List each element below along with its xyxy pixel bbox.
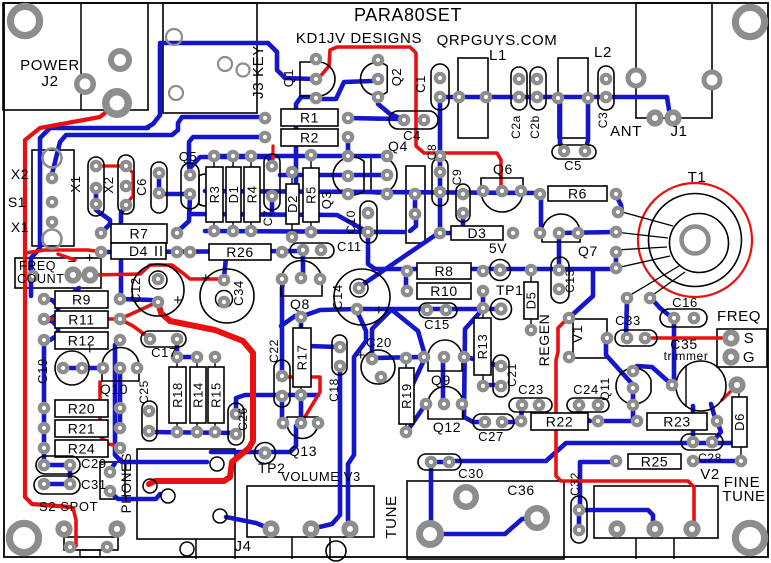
label C14: [330, 284, 345, 310]
pads R7: [97, 229, 181, 237]
wire Q10 bias: [100, 382, 119, 446]
label Q1: [281, 69, 296, 88]
resistor R15: [208, 357, 224, 432]
svg-text:REGEN: REGEN: [536, 314, 552, 367]
T1 fan wires: [615, 212, 685, 297]
J1 pad L: [628, 70, 644, 86]
wire T1 pad to C33: [626, 299, 627, 336]
TUNE rotor pad: [456, 487, 476, 507]
pads R25: [612, 457, 697, 465]
label J3 KEY: [250, 45, 267, 99]
wire D3 to C14: [359, 234, 437, 288]
capacitor C2b: [530, 67, 546, 110]
pads C23: [518, 401, 543, 409]
J2 pad mid: [111, 51, 129, 69]
pads Q2: [374, 56, 382, 101]
pad counter 2: [84, 269, 96, 281]
pads C30: [427, 458, 453, 466]
svg-text:S: S: [744, 330, 755, 347]
mount hole BR: [735, 523, 764, 552]
resistor R10: [417, 283, 471, 299]
pads C29: [40, 461, 74, 469]
capacitor C7: [264, 154, 280, 210]
label J2: [41, 73, 58, 90]
pads Q10: [99, 364, 141, 372]
label C16: [672, 295, 698, 310]
wire C36 link: [436, 518, 532, 534]
capacitor C20 body: [361, 350, 395, 384]
resistor R23: [647, 413, 707, 430]
wire C15 to Q9: [392, 310, 424, 352]
pads Q9: [420, 353, 468, 361]
svg-text:J4: J4: [234, 538, 251, 555]
svg-text:C23: C23: [518, 382, 544, 397]
transistor Q9 body: [428, 340, 462, 371]
pads D3: [436, 229, 517, 237]
wire C32 link: [577, 510, 582, 530]
wire Q4 pads: [413, 195, 418, 213]
pads C5: [560, 147, 589, 155]
capacitor C23: [509, 398, 552, 412]
pads C28: [689, 438, 716, 446]
wire C17 to R18: [175, 341, 180, 356]
wire power feed thick: [25, 103, 117, 507]
svg-text:Q13: Q13: [289, 443, 317, 459]
pads C35 left: [668, 381, 676, 389]
pads bus271: [527, 266, 535, 274]
wire Q1 to Q2: [320, 80, 377, 99]
label KD1JV DESIGNS: [296, 30, 422, 47]
pads R2: [261, 133, 352, 141]
wire R7 to Q5: [177, 196, 190, 232]
svg-text:ANT: ANT: [610, 123, 642, 140]
svg-text:KD1JV DESIGNS: KD1JV DESIGNS: [296, 30, 422, 47]
label REGEN: [536, 314, 552, 367]
pads C18: [336, 343, 344, 370]
wire counter stub: [58, 254, 75, 260]
wire R2 stub: [346, 139, 351, 156]
svg-text:R24: R24: [68, 441, 95, 457]
capacitor C16: [660, 309, 707, 327]
svg-text:C29: C29: [81, 456, 107, 471]
resistor R25: [628, 454, 681, 470]
wire bus y432: [149, 432, 236, 433]
wire R2 left bus: [189, 137, 265, 172]
wire C27 to R22: [503, 420, 519, 425]
label Q8: [290, 296, 310, 312]
J4 hole c: [161, 489, 175, 503]
svg-text:S1: S1: [8, 194, 26, 210]
wire R23 to C28: [713, 421, 721, 441]
transistor Q4 body: [371, 156, 397, 194]
svg-text:C6: C6: [134, 178, 149, 196]
connector J3 outline: [163, 3, 257, 113]
capacitor C18: [332, 335, 347, 375]
jack PHONES outline: [100, 462, 125, 499]
diode D4: [111, 243, 166, 259]
wire R1 to C4: [348, 118, 404, 120]
D4 diode bars: [156, 246, 161, 256]
svg-text:PARA80SET: PARA80SET: [354, 5, 462, 25]
wire supply bus y271: [368, 234, 616, 269]
connector J4 outline: [137, 449, 235, 559]
svg-text:C28: C28: [698, 451, 722, 465]
wire R12 rail down: [115, 340, 207, 462]
svg-text:C20: C20: [366, 335, 392, 350]
svg-text:Q6: Q6: [493, 161, 513, 177]
svg-text:C17: C17: [151, 345, 177, 360]
wire RF bus y97: [440, 95, 606, 100]
label C2a: [509, 115, 523, 139]
wire REGEN line: [556, 317, 694, 527]
wire C5 riser b: [586, 99, 588, 149]
capacitor C17: [141, 331, 186, 347]
svg-text:Q5: Q5: [179, 149, 198, 164]
wire R6 drop: [539, 195, 544, 231]
resistor R18: [169, 357, 186, 432]
wire C35 to R23: [711, 404, 715, 418]
wire C16 drop: [672, 320, 674, 385]
label C26: [236, 407, 250, 431]
wire bottom pad row: [205, 231, 404, 232]
pads C34: [220, 276, 228, 306]
svg-text:D1: D1: [226, 186, 241, 204]
pads C4: [400, 116, 428, 124]
wire C30 drop: [429, 464, 434, 533]
label ANT: [610, 123, 642, 140]
resistor R24: [55, 440, 108, 457]
svg-text:TUNE: TUNE: [383, 495, 400, 538]
connector J1 outline: [636, 3, 712, 118]
svg-text:Q7: Q7: [578, 243, 598, 259]
svg-text:R19: R19: [399, 383, 414, 409]
svg-text:C19: C19: [35, 358, 50, 384]
pads Q13: [279, 419, 322, 427]
C35 chord: [685, 365, 687, 407]
pads C14: [353, 284, 363, 313]
wire C7 drop: [270, 198, 275, 213]
J3 hole b: [169, 86, 183, 100]
pads C12: [154, 275, 162, 306]
resistor R3: [206, 156, 223, 231]
wire Q8 to R17: [303, 309, 356, 316]
pad V2 3: [686, 523, 698, 535]
pads C2b: [533, 75, 541, 101]
wire Q7 to C13: [557, 233, 562, 268]
label Q3: [319, 191, 334, 210]
capacitor C22: [274, 360, 290, 407]
pads C8 top: [436, 152, 444, 160]
label J1: [670, 123, 687, 140]
svg-text:Q10: Q10: [100, 381, 128, 397]
wire C9 to D3: [443, 215, 463, 233]
label TUNE: [722, 488, 765, 505]
switch S1 outline: [32, 150, 74, 246]
pads C31: [40, 480, 74, 488]
label Q10: [100, 381, 128, 397]
label C30: [458, 466, 484, 481]
label C35: [670, 336, 697, 352]
capacitor C29: [36, 456, 80, 474]
wire outer curve: [31, 128, 148, 296]
svg-text:+: +: [86, 249, 95, 265]
C12 inner ring: [149, 271, 167, 289]
svg-text:POWER: POWER: [20, 57, 80, 74]
resistor R12: [55, 332, 108, 349]
J3 hole c: [218, 57, 232, 71]
label C36: [507, 482, 534, 498]
svg-text:Q1: Q1: [281, 69, 296, 88]
wire C35 link: [637, 366, 670, 383]
pads C25: [145, 407, 153, 435]
pads X2: [122, 162, 130, 209]
capacitor C12 body: [132, 264, 184, 316]
wire left rail: [42, 341, 47, 408]
J2 pad big: [106, 92, 129, 115]
wire R25 right: [693, 459, 741, 464]
wire mid bus y191: [205, 191, 538, 193]
svg-text:R25: R25: [641, 454, 668, 470]
pads R11: [40, 315, 124, 323]
test point TP1: [491, 299, 512, 320]
svg-text:G: G: [743, 349, 755, 366]
svg-text:+: +: [173, 292, 182, 309]
svg-text:5V: 5V: [489, 240, 507, 256]
wire C22 to Q13 blue: [280, 398, 285, 421]
wire J4 to V3: [226, 517, 268, 528]
svg-text:R9: R9: [72, 292, 91, 308]
label C29: [81, 456, 107, 471]
pads X1: [92, 162, 100, 208]
wire C22 to R17: [281, 316, 301, 326]
pads C17: [146, 335, 181, 343]
label Q9: [431, 372, 451, 388]
pads C16: [670, 314, 698, 322]
label Q6: [493, 161, 513, 177]
pad 5V: [490, 260, 511, 281]
svg-text:VOLUME V3: VOLUME V3: [281, 469, 361, 484]
label C27: [478, 429, 504, 444]
resistor R20: [55, 400, 108, 417]
capacitor C19 body: [55, 351, 89, 385]
label C9: [450, 169, 464, 186]
J2 pad small: [77, 76, 94, 93]
wire R11 cross: [44, 317, 118, 321]
wire TP1 to C15: [359, 307, 497, 312]
capacitor C11: [290, 243, 334, 258]
inductor L2 core: [558, 58, 588, 138]
S1 hole bottom: [43, 230, 62, 249]
pads D4: [97, 248, 181, 256]
svg-text:R1: R1: [300, 110, 319, 126]
label Q5: [179, 149, 198, 164]
wire C7 stub: [271, 146, 274, 168]
wire C29-C31 link: [68, 465, 73, 483]
wire top bus ext: [214, 154, 385, 159]
svg-text:D5: D5: [524, 292, 539, 310]
svg-text:C18: C18: [327, 378, 341, 402]
pads C27: [481, 418, 506, 426]
wire top pad row: [190, 157, 272, 174]
label trimmer: [664, 349, 709, 363]
svg-text:COUNT: COUNT: [17, 272, 64, 286]
resistor R5: [303, 155, 319, 232]
transistor Q11 body: [616, 368, 651, 404]
wire Q12 left leg: [408, 405, 425, 430]
V3 hole: [326, 541, 346, 561]
svg-text:L1: L1: [489, 47, 507, 64]
wire mid bus y214: [189, 214, 366, 231]
capacitor C5: [552, 145, 596, 159]
wire X2 to C12: [121, 205, 126, 295]
wire C18 rail: [315, 368, 340, 528]
pads C8: [436, 168, 444, 196]
svg-text:C34: C34: [231, 280, 246, 306]
pads D5: [527, 326, 535, 334]
svg-text:C3: C3: [596, 112, 610, 129]
label QRPGUYS.COM: [437, 32, 558, 49]
transistor Q10 body: [102, 348, 139, 381]
svg-text:R18: R18: [170, 382, 185, 408]
capacitor C1: [431, 64, 449, 110]
resistor R17: [293, 317, 311, 395]
svg-text:C7: C7: [261, 210, 275, 227]
pad S2 a: [58, 523, 70, 535]
label C2b: [528, 115, 542, 139]
wire R13 rail: [464, 310, 483, 422]
label POWER: [20, 57, 80, 74]
wire C3 to J1: [606, 97, 672, 116]
svg-text:Q9: Q9: [431, 372, 451, 388]
capacitor C8: [432, 158, 448, 206]
pad V3 3: [344, 523, 356, 535]
label X1: [68, 175, 83, 192]
label TP2: [258, 460, 285, 476]
resistor R26: [209, 244, 271, 260]
pads C21: [497, 362, 505, 390]
label Q7: [578, 243, 598, 259]
variable capacitor TUNE outline: [407, 481, 564, 559]
svg-text:J3 KEY: J3 KEY: [250, 45, 267, 99]
pads D2: [288, 168, 296, 241]
pads Q4 rail: [383, 152, 391, 198]
svg-text:L2: L2: [594, 44, 612, 61]
wire C15 to C20: [372, 309, 392, 357]
svg-text:D2: D2: [285, 195, 300, 213]
pads R6: [536, 190, 620, 198]
label COUNT: [17, 272, 64, 286]
svg-text:C14: C14: [330, 284, 345, 310]
wire C24 drop: [579, 406, 590, 421]
wire Q7 pads: [559, 232, 616, 233]
wire key bus top: [160, 43, 313, 79]
transistor Q5 tab: [199, 174, 222, 206]
label C8: [425, 144, 439, 161]
pads C1: [436, 74, 444, 101]
wire X1 drop: [96, 190, 110, 231]
wire R24-C29 link: [42, 449, 47, 464]
pads D6 bot: [737, 457, 745, 465]
wire C22 riser: [282, 281, 283, 374]
wire phones ring: [110, 492, 160, 499]
capacitor C25: [142, 401, 157, 441]
svg-text:C27: C27: [478, 429, 504, 444]
capacitor C4: [389, 111, 438, 129]
svg-text:FREQ: FREQ: [717, 308, 761, 325]
label FINE: [724, 474, 761, 491]
label +: [86, 249, 95, 265]
svg-text:TP1: TP1: [496, 282, 523, 298]
svg-text:R10: R10: [430, 283, 457, 299]
wire C35 to C28: [691, 406, 696, 440]
pads L1: [455, 93, 490, 101]
svg-text:D6: D6: [732, 413, 747, 431]
svg-text:D3: D3: [467, 225, 486, 241]
wire TP2 line: [211, 426, 296, 452]
svg-text:R13: R13: [475, 334, 490, 360]
mount hole TL: [10, 6, 39, 35]
pads Q1: [312, 55, 320, 102]
pad C35 right: [731, 379, 743, 391]
svg-text:C26: C26: [236, 407, 250, 431]
pads Q5: [186, 171, 194, 198]
label PARA80SET: [354, 5, 462, 25]
svg-text:R20: R20: [68, 401, 95, 417]
svg-text:C5: C5: [564, 158, 582, 173]
variable capacitor V2 outline: [594, 486, 718, 559]
label L1: [489, 47, 507, 64]
pad counter 1: [67, 269, 79, 281]
capacitor C15: [419, 303, 457, 318]
pad V3 1: [265, 523, 277, 535]
svg-text:Q12: Q12: [433, 419, 461, 435]
transistor Q12 body: [428, 387, 463, 420]
crystal X2: [118, 155, 134, 214]
svg-text:Q11: Q11: [598, 377, 612, 401]
label +: [356, 347, 365, 364]
svg-text:C1: C1: [413, 75, 428, 93]
label VOLUME V3: [281, 469, 361, 484]
label C13: [563, 269, 577, 293]
pads R3D1R4 bot: [210, 227, 255, 235]
svg-text:C16: C16: [672, 295, 698, 310]
pads C24: [575, 401, 602, 409]
pads C11: [299, 246, 325, 254]
svg-text:Q2: Q2: [389, 68, 404, 87]
svg-text:R5: R5: [304, 186, 319, 204]
svg-text:R6: R6: [568, 186, 587, 202]
capacitor C24: [567, 398, 609, 412]
connector FREQ outline: [717, 329, 767, 367]
pads R21: [40, 424, 124, 432]
wire R6 to T1: [615, 193, 622, 212]
label +: [374, 302, 383, 319]
label C4: [403, 128, 421, 143]
J4 hole a: [143, 479, 157, 493]
pads C9: [459, 190, 467, 217]
wire R1 left bus: [52, 117, 265, 174]
resistor R8: [417, 263, 471, 279]
svg-text:C12: C12: [128, 277, 143, 303]
wire Q9 left leg: [412, 358, 425, 386]
svg-text:Q4: Q4: [388, 138, 408, 154]
resistor R13: [474, 308, 491, 386]
freq counter header outline: [15, 258, 101, 288]
label TUNE: [383, 495, 400, 538]
wire C23 drop: [521, 406, 522, 420]
wire C19 to Q10: [63, 366, 103, 371]
svg-text:R4: R4: [245, 186, 260, 204]
